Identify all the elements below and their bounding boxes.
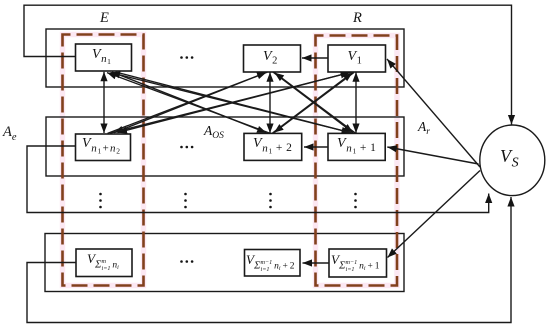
arrow V_n1+1 to V_n1+2 xyxy=(304,146,328,148)
wire B: V_n1+n2 left, down, across, up into V_S bottom-left xyxy=(27,146,489,213)
arrow V_1 to V_n1+n2 xyxy=(118,72,352,132)
arrow V_sum+1 to V_sum+2 xyxy=(303,262,330,264)
vertical dots column 4 xyxy=(354,193,357,209)
node box V_sum_m-1_ni+1 xyxy=(329,249,387,277)
node box V_n1+1 xyxy=(328,133,385,160)
pink glow of dashed region E xyxy=(63,35,144,286)
wire A: V_n1 left, up, across top, down into V_S top xyxy=(24,5,512,124)
node box V_1 xyxy=(328,45,386,72)
arrow V_n1+2 to V_1 xyxy=(273,73,353,133)
label V_S xyxy=(500,147,519,171)
arrow V_2 to V_n1+1 xyxy=(273,72,353,133)
label R xyxy=(353,11,362,26)
arrow V_n1+1 to V_n1 xyxy=(111,73,354,134)
arrow V_1 to V_n1+2 xyxy=(274,72,354,132)
arrow V_S to V_n1+1 xyxy=(387,147,478,164)
label node V_n1+n2 xyxy=(82,137,121,155)
node box V_sum_ni xyxy=(76,249,132,277)
node box V_2 xyxy=(244,45,301,72)
ellipsis dots row 1 xyxy=(180,56,193,59)
wire C: V_sum_ni left, down, across bottom, up into V_S bottom xyxy=(27,197,511,323)
bidir arrow V_2 / V_n1+2 xyxy=(269,72,271,133)
arrow V_S to V_1 xyxy=(387,59,480,167)
label E xyxy=(100,11,109,26)
container row 1 (E/R top row) xyxy=(46,29,404,87)
arrow V_n1+2 to V_n1 xyxy=(107,73,270,134)
node box V_n1+2 xyxy=(244,133,302,160)
bidir arrow V_1 / V_n1+1 xyxy=(355,72,357,133)
vertical dots column 2 xyxy=(184,193,187,209)
node box V_n1+n2 xyxy=(76,134,131,161)
label node V_sum_ni xyxy=(87,252,119,272)
vertical dots column 1 xyxy=(99,193,102,209)
label node V_n1 xyxy=(92,48,111,66)
label node V_2 xyxy=(263,50,278,67)
arrow V_1 to V_2 xyxy=(302,57,328,59)
bidir arrow V_n1 / V_n1+n2 xyxy=(103,72,105,133)
arrow V_2 to V_n1+n2 xyxy=(114,72,268,133)
container row 3 (bottom row) xyxy=(45,234,404,292)
arrow V_n1+n2 to V_1 xyxy=(110,73,350,134)
ellipsis dots row 3 xyxy=(180,260,193,263)
arrow V_n1+1 to V_2 xyxy=(275,73,356,134)
dashed region E xyxy=(63,35,144,286)
pink glow of dashed region R xyxy=(316,36,398,286)
label node V_sum_m-1_ni+2 xyxy=(246,253,295,273)
label node V_n1+1 xyxy=(337,137,377,155)
arrow V_n1 to V_n1+2 xyxy=(112,72,267,133)
label A_e xyxy=(3,125,17,144)
vertical dots column 3 xyxy=(269,193,272,209)
dashed region R xyxy=(316,36,398,286)
label A_r xyxy=(418,120,430,138)
node box V_n1 xyxy=(76,44,132,71)
node box V_sum_m-1_ni+2 xyxy=(245,250,301,277)
arrow V_S to V_sum+1 xyxy=(388,171,481,258)
label node V_1 xyxy=(348,50,363,67)
arrow V_n1 to V_n1+1 xyxy=(116,72,352,133)
ellipsis dots row 2 xyxy=(180,146,193,149)
container row 2 (middle row) xyxy=(46,117,404,176)
label A_OS xyxy=(204,124,224,142)
label node V_sum_m-1_ni+1 xyxy=(331,253,380,273)
label node V_n1+2 xyxy=(253,137,293,155)
arrow V_n1+n2 to V_2 xyxy=(108,72,267,133)
source node circle V_S xyxy=(480,125,545,196)
